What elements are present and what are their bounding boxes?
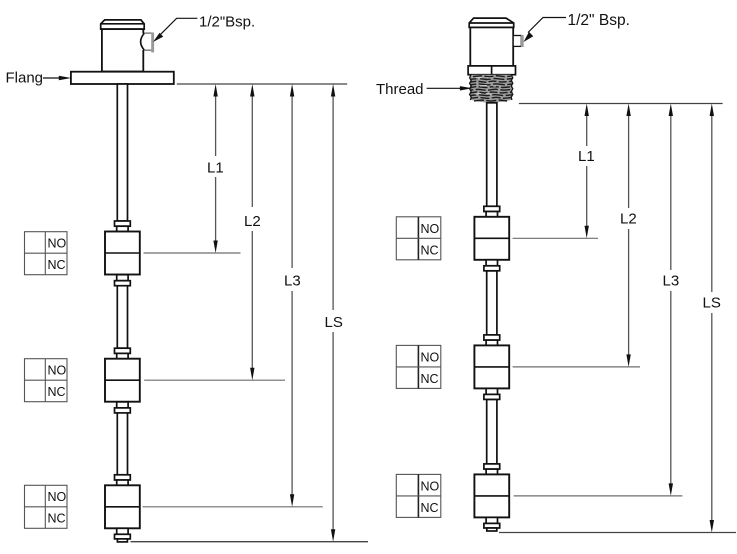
right switch table 2 <box>396 345 441 388</box>
svg-text:NC: NC <box>421 372 439 386</box>
svg-text:NC: NC <box>48 385 66 399</box>
left float F3 <box>105 475 140 542</box>
flange leader <box>43 76 71 80</box>
right float F2 <box>474 335 509 400</box>
svg-text:L2: L2 <box>244 213 261 230</box>
right stem segment 2 <box>487 271 497 335</box>
svg-text:L2: L2 <box>620 211 637 228</box>
right switch table 1 <box>396 217 441 260</box>
left stem segment 2 <box>117 286 127 349</box>
left dimension L2 <box>244 84 261 380</box>
left stem segment 3 <box>117 412 127 475</box>
svg-text:NO: NO <box>48 364 67 378</box>
right dimension L2 <box>620 104 637 367</box>
left switch table 3 <box>25 485 68 528</box>
left side port 1/2 BSP <box>141 33 154 53</box>
left ext line float2 <box>144 379 285 381</box>
right side port 1/2 BSP <box>513 35 524 47</box>
left dimension L1 <box>207 84 224 253</box>
right housing <box>470 27 513 66</box>
right bottom datum line <box>499 532 736 534</box>
left 1/2"Bsp. leader <box>153 18 197 42</box>
flange <box>71 72 174 84</box>
right float F1 <box>474 206 509 270</box>
left float F2 <box>105 348 140 413</box>
right stem segment 3 <box>487 399 497 464</box>
left float F1 <box>105 221 140 286</box>
svg-text:NO: NO <box>48 237 67 251</box>
right ext line float3 <box>514 495 683 497</box>
right 1/2" Bsp. leader <box>524 18 567 43</box>
svg-text:NO: NO <box>421 350 440 364</box>
left ext line float3 <box>143 506 323 508</box>
right ext line float2 <box>513 366 640 368</box>
left switch table 1 <box>25 232 68 275</box>
right thread <box>470 75 513 103</box>
left stem segment 1 <box>117 84 127 221</box>
svg-text:Flang: Flang <box>6 70 44 87</box>
right dimension LS <box>703 104 721 533</box>
right dimension L1 <box>578 104 595 239</box>
svg-text:NC: NC <box>48 512 66 526</box>
right float F3 <box>474 464 509 531</box>
left bottom datum line <box>131 541 369 543</box>
left switch table 2 <box>25 359 68 402</box>
svg-text:1/2" Bsp.: 1/2" Bsp. <box>568 12 630 29</box>
svg-text:Thread: Thread <box>376 81 424 98</box>
svg-text:NC: NC <box>421 243 439 257</box>
svg-text:L1: L1 <box>207 160 224 177</box>
left ext line float1 <box>144 252 241 254</box>
right hex collar <box>468 66 515 75</box>
svg-text:1/2"Bsp.: 1/2"Bsp. <box>199 14 255 31</box>
right stem segment 1 <box>487 103 497 207</box>
svg-text:L3: L3 <box>663 273 680 290</box>
svg-text:NC: NC <box>421 501 439 515</box>
left top datum line <box>177 83 347 85</box>
svg-text:L3: L3 <box>284 273 301 290</box>
right dimension L3 <box>663 104 680 496</box>
left dimension L3 <box>284 84 301 507</box>
svg-text:LS: LS <box>703 295 721 312</box>
svg-text:NO: NO <box>48 490 67 504</box>
left head cap <box>101 20 145 29</box>
thread leader <box>427 86 473 90</box>
svg-text:LS: LS <box>325 314 343 331</box>
right top datum line <box>519 103 723 105</box>
svg-text:NO: NO <box>421 479 440 493</box>
left dimension LS <box>325 84 343 542</box>
svg-text:L1: L1 <box>578 148 595 165</box>
right head cap <box>469 18 514 27</box>
right switch table 3 <box>396 474 441 517</box>
left housing <box>102 29 143 71</box>
right ext line float1 <box>513 237 599 239</box>
svg-text:NO: NO <box>421 222 440 236</box>
svg-text:NC: NC <box>48 258 66 272</box>
